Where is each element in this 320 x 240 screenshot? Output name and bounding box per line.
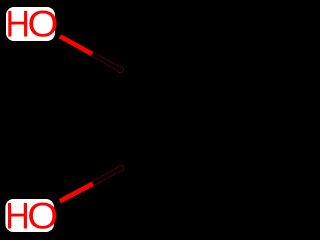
- bond O2-C2 carbon half (black fill of carbon stick): [93, 168, 121, 184]
- label background OH top: [6, 7, 55, 41]
- bond O1-C1 carbon half (black fill of carbon stick): [92, 54, 120, 70]
- svg-text:O: O: [27, 196, 58, 237]
- label text HO top (hydroxyl O1): [6, 4, 59, 45]
- svg-text:H: H: [5, 196, 30, 237]
- bond O1-C1 oxygen half (bright red): [60, 36, 92, 54]
- bond O2-C2 oxygen half (bright red): [60, 184, 93, 202]
- wire C3-C4 ring bond: [207, 169, 293, 219]
- benzene ring (black bonds, invisible on black background): [121, 20, 293, 219]
- label text HO bottom (hydroxyl O2): [5, 196, 58, 237]
- bond O1-C1 carbon end ball (black fill): [118, 67, 123, 72]
- bond O2-C2 carbon end ball rim (dark red): [117, 165, 124, 172]
- bond O2-C2 carbon half rim (dark red outline of carbon stick): [92, 168, 121, 184]
- svg-text:H: H: [6, 4, 31, 45]
- bond O1-C1 carbon half rim (dark red outline of carbon stick): [91, 53, 120, 69]
- wire C6-C1 ring bond: [121, 20, 207, 70]
- wire C2-C3 ring bond: [121, 169, 207, 219]
- bond O2-C2 carbon end ball (black fill): [118, 165, 124, 171]
- label background OH bottom: [5, 199, 54, 232]
- wire C1-C2 ring bond: [119, 69, 123, 169]
- wire C4-C5 ring bond: [291, 69, 295, 169]
- bond O1-C1 carbon end ball rim (dark red): [117, 66, 124, 73]
- svg-text:O: O: [28, 4, 59, 45]
- wire C5-C6 ring bond: [207, 20, 293, 70]
